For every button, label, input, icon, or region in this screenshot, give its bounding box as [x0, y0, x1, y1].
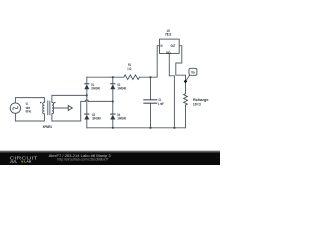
diode D4: [110, 114, 115, 120]
svg-text:60 Hz: 60 Hz: [26, 110, 32, 114]
svg-text:7812: 7812: [165, 33, 171, 37]
svg-text:LAB: LAB: [24, 160, 31, 164]
phase dot secondary: [54, 102, 55, 103]
logo waveform: [10, 161, 17, 163]
logo yellow square: [21, 161, 23, 163]
wire secondary bottom lead and jog up: [52, 101, 85, 121]
wire Vo to Rcharge: [185, 81, 187, 127]
core: [48, 101, 50, 116]
wire secondary top lead: [52, 95, 87, 102]
node top rail C1: [150, 76, 152, 78]
label V1: [26, 102, 32, 114]
node secondary-top to left branch: [86, 95, 88, 97]
diode D1: [84, 83, 89, 89]
svg-text:1N4148: 1N4148: [92, 117, 100, 121]
pin labels IN OUT GND: [160, 44, 175, 55]
phase dot primary: [40, 102, 41, 103]
capacitor C1: [143, 100, 157, 103]
wire regulator GND routing: [169, 53, 174, 127]
svg-text:http://circuitlab.com/c36cd98b: http://circuitlab.com/c36cd98ba7f: [57, 158, 108, 162]
wire C1 branch: [150, 77, 152, 128]
label D4: [117, 113, 125, 121]
svg-text:Rcharge: Rcharge: [193, 98, 209, 102]
wire right branch: [112, 77, 114, 128]
voltage source V1: [10, 103, 20, 113]
wire primary bottom: [15, 113, 44, 121]
label Rcharge: [193, 98, 209, 107]
wire bottom rail: [87, 127, 186, 129]
svg-text:1N4148: 1N4148: [117, 87, 125, 91]
resistor Rcharge: [184, 94, 188, 105]
label U3: [165, 29, 171, 37]
label R1: [127, 63, 131, 71]
secondary coil: [52, 102, 54, 113]
label C1: [158, 98, 164, 106]
node bottom rail GND: [174, 127, 176, 129]
wire regulator OUT routing: [176, 46, 186, 82]
regulator U3 7812: [160, 39, 180, 53]
footer bar: [0, 151, 220, 165]
diode D2: [110, 83, 115, 89]
wire primary top: [15, 98, 44, 103]
node bottom rail C1: [150, 127, 152, 129]
svg-text:1 mF: 1 mF: [158, 102, 164, 106]
wire hop over left branch: [85, 100, 88, 101]
wire jog to right branch: [88, 100, 113, 102]
svg-text:1N4148: 1N4148: [117, 117, 125, 121]
label D3: [92, 113, 100, 121]
node Vo flag: [186, 75, 190, 81]
center tap wire: [54, 107, 68, 109]
label D1: [91, 83, 99, 91]
transformer XFMR1: [43, 101, 73, 116]
diode D3: [84, 114, 89, 120]
svg-text:Vo: Vo: [191, 71, 195, 75]
node top rail D2: [112, 76, 114, 78]
center tap NC triangle: [68, 106, 72, 111]
label D2: [117, 83, 125, 91]
wire top rail: [87, 46, 160, 77]
node jog to right branch: [112, 101, 114, 103]
svg-text:1N4148: 1N4148: [91, 87, 99, 91]
svg-text:GND: GND: [166, 51, 171, 55]
wire left branch: [86, 77, 88, 128]
svg-text:XFMR1: XFMR1: [43, 125, 53, 129]
svg-text:100 Ω: 100 Ω: [193, 103, 201, 107]
svg-text:1 Ω: 1 Ω: [127, 67, 131, 71]
resistor R1: [124, 75, 140, 80]
primary coil: [43, 102, 45, 113]
node bottom rail D4: [112, 127, 114, 129]
svg-text:OUT: OUT: [171, 44, 176, 48]
